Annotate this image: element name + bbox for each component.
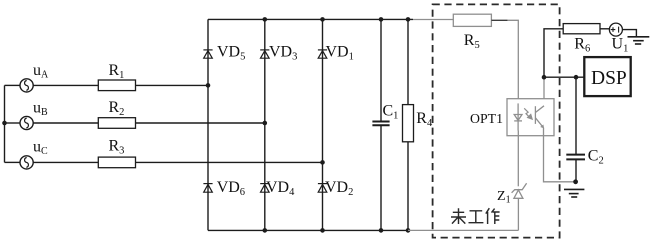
wire phase C stub: [5, 161, 21, 163]
wire U1 to ground: [622, 30, 636, 37]
svg-text:C1: C1: [383, 102, 399, 121]
svg-text:VD3: VD3: [269, 44, 297, 63]
node C1 bottom: [379, 228, 384, 233]
resistor R2: [98, 118, 135, 129]
node C2 branch: [574, 75, 579, 80]
source U1: [609, 23, 622, 36]
wire gray bottom rail: [408, 229, 518, 231]
wire collector to junction: [543, 79, 545, 106]
wire phase A stub: [5, 84, 21, 86]
resistor R3: [98, 157, 135, 168]
wire junction to DSP: [544, 76, 584, 78]
svg-text:C2: C2: [588, 148, 604, 167]
node A junction: [206, 83, 211, 88]
node bottom rail leg2: [263, 228, 268, 233]
svg-text:R3: R3: [109, 138, 125, 157]
node junction collector: [542, 75, 547, 80]
wire LED cathode down: [517, 131, 519, 187]
wire uC to R3: [33, 161, 98, 163]
wire R5 right: [491, 19, 507, 21]
wire uA to R1: [33, 84, 98, 86]
LED inside OPT1: [517, 103, 519, 130]
node neutral junction: [2, 121, 7, 126]
wire gray top rail into box: [413, 19, 453, 21]
DSP U2 block: [584, 57, 630, 96]
capacitor C2: [566, 154, 585, 156]
wire R3 to node C: [136, 161, 323, 163]
svg-text:R1: R1: [109, 62, 125, 81]
diode VD2: [318, 184, 327, 193]
svg-text:VD6: VD6: [217, 179, 245, 198]
capacitor C1: [380, 19, 382, 121]
svg-text:OPT1: OPT1: [470, 111, 503, 126]
node C junction: [320, 160, 325, 165]
svg-text:R5: R5: [464, 32, 480, 51]
resistor R5: [453, 14, 491, 26]
svg-text:uA: uA: [33, 62, 49, 81]
wire R6 left down to junction: [544, 29, 563, 77]
wire uB to R2: [33, 122, 98, 124]
svg-text:R6: R6: [574, 35, 590, 54]
diode VD1: [318, 50, 327, 58]
svg-text:VD5: VD5: [217, 44, 245, 63]
node C1 top: [379, 17, 384, 22]
wire R6 to U1: [600, 28, 610, 30]
diode VD3: [260, 50, 269, 58]
AC source uA: [20, 79, 33, 92]
wire bridge leg 2: [264, 19, 266, 230]
glyph 作: [486, 208, 500, 224]
wire bridge leg 1: [207, 19, 209, 230]
AC source uB: [20, 116, 33, 129]
diode VD4: [260, 184, 269, 193]
ground at U1: [628, 36, 650, 38]
zener Z1: [514, 190, 523, 198]
svg-text:uC: uC: [33, 139, 48, 158]
wire emitter down and right: [544, 128, 575, 182]
wire top DC rail: [208, 18, 413, 20]
light arrows: [524, 108, 529, 117]
ground at C2: [564, 188, 584, 190]
diode VD5: [203, 50, 212, 58]
svg-text:R4: R4: [416, 110, 433, 129]
svg-text:VD4: VD4: [266, 179, 295, 198]
dashed enclosure 未工作 box: [433, 4, 560, 237]
svg-text:VD1: VD1: [326, 44, 354, 63]
node R4 bottom: [406, 228, 411, 233]
wire R2 to node B: [136, 122, 265, 124]
wire bottom DC rail: [208, 229, 408, 231]
svg-text:VD2: VD2: [325, 179, 353, 198]
svg-text:U1: U1: [612, 35, 629, 54]
AC source uC: [20, 156, 33, 169]
node top rail leg2: [263, 17, 268, 22]
node bottom rail leg3: [320, 228, 325, 233]
resistor R1: [98, 80, 135, 91]
wire C2 branch down: [575, 77, 577, 154]
wire phase B stub: [5, 122, 21, 124]
svg-text:R2: R2: [109, 99, 125, 118]
label 未工作: [451, 208, 500, 224]
svg-text:uB: uB: [33, 100, 48, 119]
wire left phase bus vertical: [4, 85, 6, 162]
diode VD6: [203, 184, 212, 193]
glyph 工: [469, 211, 484, 223]
phototransistor inside OPT1: [534, 106, 536, 124]
resistor R4: [407, 19, 409, 104]
svg-text:Z1: Z1: [497, 189, 511, 206]
resistor R6: [563, 24, 600, 34]
svg-text:DSP: DSP: [591, 68, 627, 89]
wire Z1 to bottom rail: [517, 198, 519, 230]
wire R1 to node A: [136, 84, 209, 86]
node ground junction: [573, 179, 578, 184]
optocoupler OPT1: [507, 99, 554, 136]
wire bridge leg 3: [322, 19, 324, 230]
glyph 未: [451, 208, 466, 224]
node top rail leg3: [320, 17, 325, 22]
node R4 top: [406, 17, 411, 22]
node B junction: [263, 121, 268, 126]
